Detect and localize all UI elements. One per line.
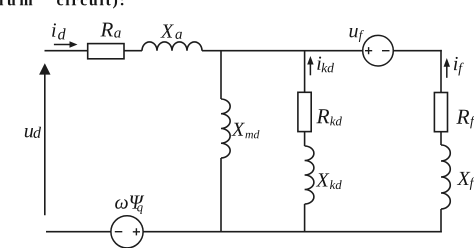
- wire X_f to bottom-right corner: [440, 209, 442, 233]
- wire R_a to X_a: [124, 50, 142, 52]
- label i_d: [52, 23, 66, 39]
- label R_f: [456, 110, 474, 129]
- label u_d: [25, 127, 41, 138]
- wire X_md to bottom: [220, 158, 222, 232]
- minus sign of omega-Psi-q: [115, 231, 123, 233]
- wire R_kd branch top: [304, 51, 306, 93]
- arrowhead of current arrow i_kd: [307, 56, 313, 65]
- label X_md: [231, 123, 259, 139]
- plus sign of u_f: [365, 47, 372, 54]
- label omega-Psi-q: [115, 196, 144, 214]
- wire X_a to u_f source (through X_md and R_kd junctions): [202, 50, 363, 52]
- inductor X_f: [441, 145, 450, 209]
- label X_a: [160, 25, 182, 39]
- wire X_kd to bottom: [304, 204, 306, 232]
- inductor X_md: [221, 99, 230, 158]
- resistor R_f: [434, 93, 447, 132]
- resistor R_kd: [298, 92, 311, 131]
- label u_f: [349, 28, 363, 42]
- minus sign of u_f: [382, 50, 390, 52]
- label i_kd: [317, 57, 334, 73]
- arrowhead of current arrow i_d: [70, 41, 78, 47]
- resistor R_a: [88, 44, 124, 59]
- arrowhead of voltage arrow u_d: [39, 63, 50, 74]
- label R_a: [100, 23, 120, 38]
- inductor X_a: [142, 42, 202, 51]
- label X_f: [457, 172, 474, 190]
- current arrow i_kd shaft: [309, 65, 311, 76]
- arrowhead of current arrow i_f: [444, 58, 450, 67]
- wire R_f to X_f: [440, 132, 442, 145]
- voltage arrow u_d shaft: [44, 74, 46, 215]
- current arrow i_f shaft: [446, 67, 448, 78]
- current arrow i_d shaft: [54, 44, 71, 46]
- caption text (cropped at top edge), part 2: [57, 0, 123, 9]
- plus sign of omega-Psi-q: [133, 228, 140, 235]
- wire u_f to top-right corner: [394, 50, 442, 52]
- label R_kd: [316, 109, 342, 125]
- label i_f: [454, 57, 464, 76]
- caption text (cropped at top edge), part 1: [0, 0, 32, 5]
- wire omega-Psi-q source to bottom-right corner: [143, 231, 441, 233]
- wire right branch top: [440, 50, 442, 93]
- wire R_kd to X_kd: [304, 132, 306, 146]
- label X_kd: [316, 173, 342, 189]
- inductor X_kd: [305, 146, 314, 204]
- wire bottom-left to omega-Psi-q source: [46, 231, 111, 233]
- wire top-left terminal to R_a: [45, 50, 88, 52]
- voltage source u_f: [363, 35, 394, 66]
- voltage source omega-Psi-q: [111, 216, 143, 248]
- wire X_md branch top: [220, 51, 222, 99]
